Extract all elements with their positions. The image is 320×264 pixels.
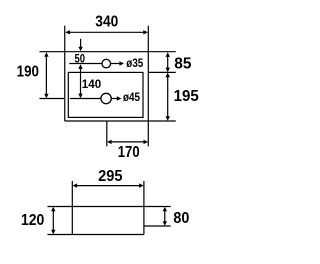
drain hole circle Ø45	[101, 93, 111, 103]
svg-text:170: 170	[118, 144, 140, 161]
centerline of faucet hole	[69, 63, 102, 65]
dimension 295 (front view width)	[73, 168, 144, 188]
svg-text:140: 140	[82, 77, 101, 91]
svg-text:190: 190	[17, 64, 39, 81]
svg-text:295: 295	[98, 168, 123, 185]
extension line at basin top edge (right)	[148, 71, 176, 73]
dimension 190 (left height)	[17, 52, 49, 98]
dimension 195 (basin top to rim bottom, right side)	[166, 73, 200, 121]
leader label ø45	[111, 90, 140, 104]
dimension 85 (rim top to basin top, right side)	[166, 52, 192, 72]
extension line basin depth (front view right)	[144, 225, 171, 227]
centerline of drain hole	[40, 98, 101, 100]
svg-text:ø45: ø45	[123, 90, 140, 104]
svg-text:85: 85	[174, 55, 191, 72]
dimension 80 (front view basin depth)	[163, 207, 190, 227]
dimension 50 (top edge to faucet hole center)	[75, 39, 86, 66]
svg-text:80: 80	[173, 210, 189, 227]
svg-text:ø35: ø35	[126, 56, 143, 70]
svg-text:120: 120	[21, 212, 44, 229]
dimension 340 (top width)	[65, 14, 148, 35]
dimension 170 (drain center to right edge)	[107, 140, 148, 162]
faucet hole circle Ø35	[102, 59, 111, 68]
leader label ø35	[111, 56, 143, 70]
svg-text:195: 195	[174, 88, 199, 105]
sink outer rim rectangle (top view)	[40, 26, 176, 147]
extension line below drain center (170 dim left)	[106, 121, 108, 146]
sink body rectangle (front view)	[48, 181, 171, 235]
svg-text:340: 340	[95, 14, 118, 31]
dimension 140 (faucet hole to drain hole)	[78, 64, 101, 98]
svg-text:50: 50	[75, 51, 86, 65]
dimension 120 (front view total height)	[21, 207, 56, 235]
basin inner rectangle (top view)	[68, 72, 143, 117]
